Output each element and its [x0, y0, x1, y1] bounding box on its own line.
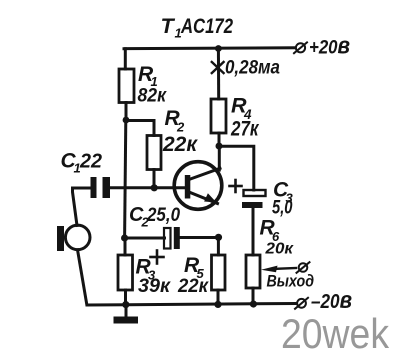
plus sign C3 polarity	[230, 180, 242, 192]
svg-text:20к: 20к	[264, 241, 294, 258]
capacitor C3 top plate	[244, 190, 266, 196]
terminal -20V circle	[295, 298, 308, 309]
node R3-ground junction dot	[122, 301, 129, 308]
microphone element bar	[57, 226, 64, 251]
label R5	[184, 254, 205, 281]
output tap arrow line	[272, 268, 296, 269]
capacitor C2 left plate	[164, 228, 171, 249]
svg-text:T: T	[161, 14, 176, 38]
node B junction dot	[121, 234, 128, 241]
svg-text:5,0: 5,0	[272, 198, 293, 219]
node R5-rail junction dot	[214, 301, 221, 308]
wire R1 top drop	[124, 49, 127, 69]
resistor R6	[246, 255, 260, 288]
transistor T1 body circle	[174, 162, 222, 210]
label R1	[138, 63, 158, 89]
transistor T1 collector line	[189, 168, 220, 179]
output terminal circle	[297, 262, 310, 273]
node A junction dot	[123, 117, 130, 124]
microphone body circle	[65, 225, 90, 250]
svg-text:82к: 82к	[138, 86, 168, 107]
wire node B to R3	[124, 238, 127, 255]
wire R1 bottom	[125, 103, 128, 121]
svg-text:0,28ма: 0,28ма	[225, 58, 280, 79]
wire bottom rail	[87, 304, 295, 306]
output tap arrowhead	[261, 266, 278, 273]
resistor R2	[147, 136, 161, 170]
wire C1 left lead	[73, 187, 91, 190]
svg-text:Выход: Выход	[267, 272, 315, 291]
svg-text:+20в: +20в	[309, 33, 350, 60]
label C1 22	[61, 150, 103, 176]
node base junction dot	[151, 184, 158, 191]
capacitor C2 right plate	[174, 227, 180, 249]
label T1 AC172 title	[161, 14, 234, 41]
label C3	[273, 179, 294, 206]
current measurement x mark	[212, 62, 224, 73]
ground stem	[125, 305, 128, 317]
wire C3 to R6	[252, 208, 255, 255]
resistor R1	[119, 69, 134, 103]
svg-text:AC172: AC172	[180, 14, 233, 38]
capacitor C3 bottom plate	[242, 202, 263, 208]
capacitor C1 left plate	[91, 177, 97, 198]
wire top supply rail	[124, 46, 295, 50]
wire R4 bottom	[218, 133, 221, 146]
node rail-R4 junction dot	[215, 45, 222, 52]
wire base	[110, 186, 186, 189]
capacitor C1 right plate	[103, 177, 111, 198]
wire emitter to R5	[217, 237, 220, 255]
label R6	[260, 217, 281, 245]
wire C2 to emitter node	[180, 236, 219, 239]
wire mic top to C1	[73, 188, 78, 226]
resistor R5	[212, 255, 226, 290]
wire R4 top	[217, 49, 220, 100]
wire R3 bottom	[124, 290, 127, 305]
wire R2 bottom	[153, 170, 156, 189]
resistor R3	[118, 255, 133, 290]
ground bar	[114, 317, 139, 324]
terminal +20V circle	[294, 42, 307, 53]
label R4	[231, 94, 252, 123]
transistor T1 base bar	[185, 175, 191, 199]
resistor R4	[211, 99, 226, 133]
wire R5 bottom	[217, 290, 220, 305]
svg-text:39к: 39к	[138, 276, 171, 297]
wire node C to C3 branch	[219, 146, 254, 190]
svg-text:27к: 27к	[230, 117, 259, 141]
wire mic bottom to rail	[78, 250, 87, 305]
transistor T1 emitter line	[189, 192, 218, 204]
label R3	[136, 256, 157, 283]
svg-text:22к: 22к	[162, 133, 198, 156]
wire node A to R2	[126, 121, 154, 136]
node R6-rail junction dot	[250, 300, 257, 307]
node collector junction dot	[216, 143, 223, 150]
svg-text:22: 22	[79, 151, 102, 173]
transistor T1 emitter arrowhead	[204, 193, 216, 202]
wire R6 bottom	[252, 288, 255, 304]
label R2	[165, 107, 186, 135]
plus sign C2 polarity	[151, 251, 164, 264]
label C2 25,0	[129, 204, 180, 230]
node emitter junction dot	[215, 234, 222, 241]
wire divider vertical R1-R3	[125, 120, 126, 238]
wire collector vertical	[218, 146, 221, 170]
svg-text:25,0: 25,0	[146, 205, 180, 226]
wire node B to C2	[125, 237, 165, 240]
svg-text:20wek: 20wek	[281, 310, 389, 357]
svg-text:22к: 22к	[177, 276, 209, 297]
